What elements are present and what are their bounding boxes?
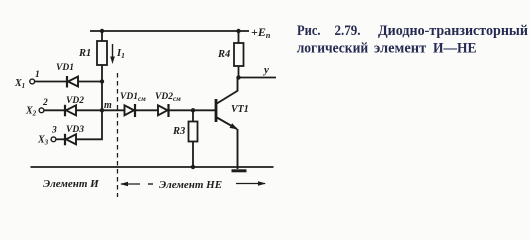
wire node m to VD1cm (102, 109, 125, 111)
svg-text:VD3: VD3 (66, 125, 84, 135)
current arrow I1 (110, 44, 115, 64)
dashed separator line (117, 73, 119, 197)
svg-text:VT1: VT1 (231, 104, 249, 115)
wire VD2 to node m (76, 109, 102, 111)
diode VD1 (67, 76, 78, 88)
wire VD1cm to VD2cm (135, 109, 159, 111)
svg-text:R1: R1 (78, 48, 91, 59)
svg-text:логический: логический (297, 40, 369, 56)
node: R3 to ground rail (191, 165, 195, 169)
svg-text:y: y (262, 64, 269, 76)
transistor VT1 (216, 78, 238, 170)
wire VD1 to common node (78, 81, 102, 83)
arrow right (Element NE span) (236, 181, 266, 185)
ground rail (31, 166, 274, 168)
wire X1 to VD1 (35, 81, 66, 83)
svg-text:2.79.: 2.79. (335, 23, 361, 39)
svg-text:1: 1 (35, 70, 40, 80)
svg-text:Диодно-транзисторный: Диодно-транзисторный (378, 23, 528, 39)
resistor R4 (234, 31, 244, 78)
svg-text:VD1: VD1 (56, 63, 74, 73)
input terminal X3 (51, 137, 56, 142)
svg-text:Элемент НЕ: Элемент НЕ (159, 179, 222, 191)
arrow left (Element NE span) (120, 182, 140, 186)
input terminal X1 (30, 79, 35, 84)
svg-text:VD2: VD2 (66, 96, 84, 106)
node: R3 junction (191, 108, 195, 112)
wire VD3 to common vertical (76, 138, 103, 140)
svg-text:R4: R4 (217, 49, 230, 60)
diode VD2cm (158, 104, 169, 117)
wire VD2cm to base (169, 109, 216, 111)
wire common vertical (anode bus) (101, 82, 103, 140)
svg-text:2: 2 (42, 98, 48, 108)
node: R1 to rail junction (100, 29, 104, 33)
node m (100, 108, 104, 112)
svg-text:И—НЕ: И—НЕ (433, 40, 477, 56)
svg-text:m: m (104, 100, 112, 111)
resistor R3 (189, 110, 198, 167)
dash before label (148, 183, 153, 185)
svg-text:Рис.: Рис. (297, 23, 321, 39)
node: VD1 / R1 junction (100, 79, 104, 83)
svg-text:R3: R3 (172, 126, 185, 137)
wire X3 to VD3 (56, 138, 64, 140)
svg-text:3: 3 (51, 126, 57, 136)
wire output y (239, 77, 277, 79)
diode VD1cm (125, 104, 136, 117)
svg-text:Элемент И: Элемент И (43, 178, 99, 190)
svg-text:элемент: элемент (374, 40, 426, 56)
node: R4 to rail junction (236, 29, 240, 33)
diode VD2 (65, 105, 76, 117)
node: collector / output junction (236, 75, 240, 79)
ground symbol (emitter) (232, 169, 247, 172)
top supply rail (90, 30, 249, 32)
wire X2 to VD2 (44, 109, 64, 111)
diode VD3 (65, 134, 76, 146)
input terminal X2 (39, 108, 44, 113)
resistor R1 (97, 31, 107, 82)
